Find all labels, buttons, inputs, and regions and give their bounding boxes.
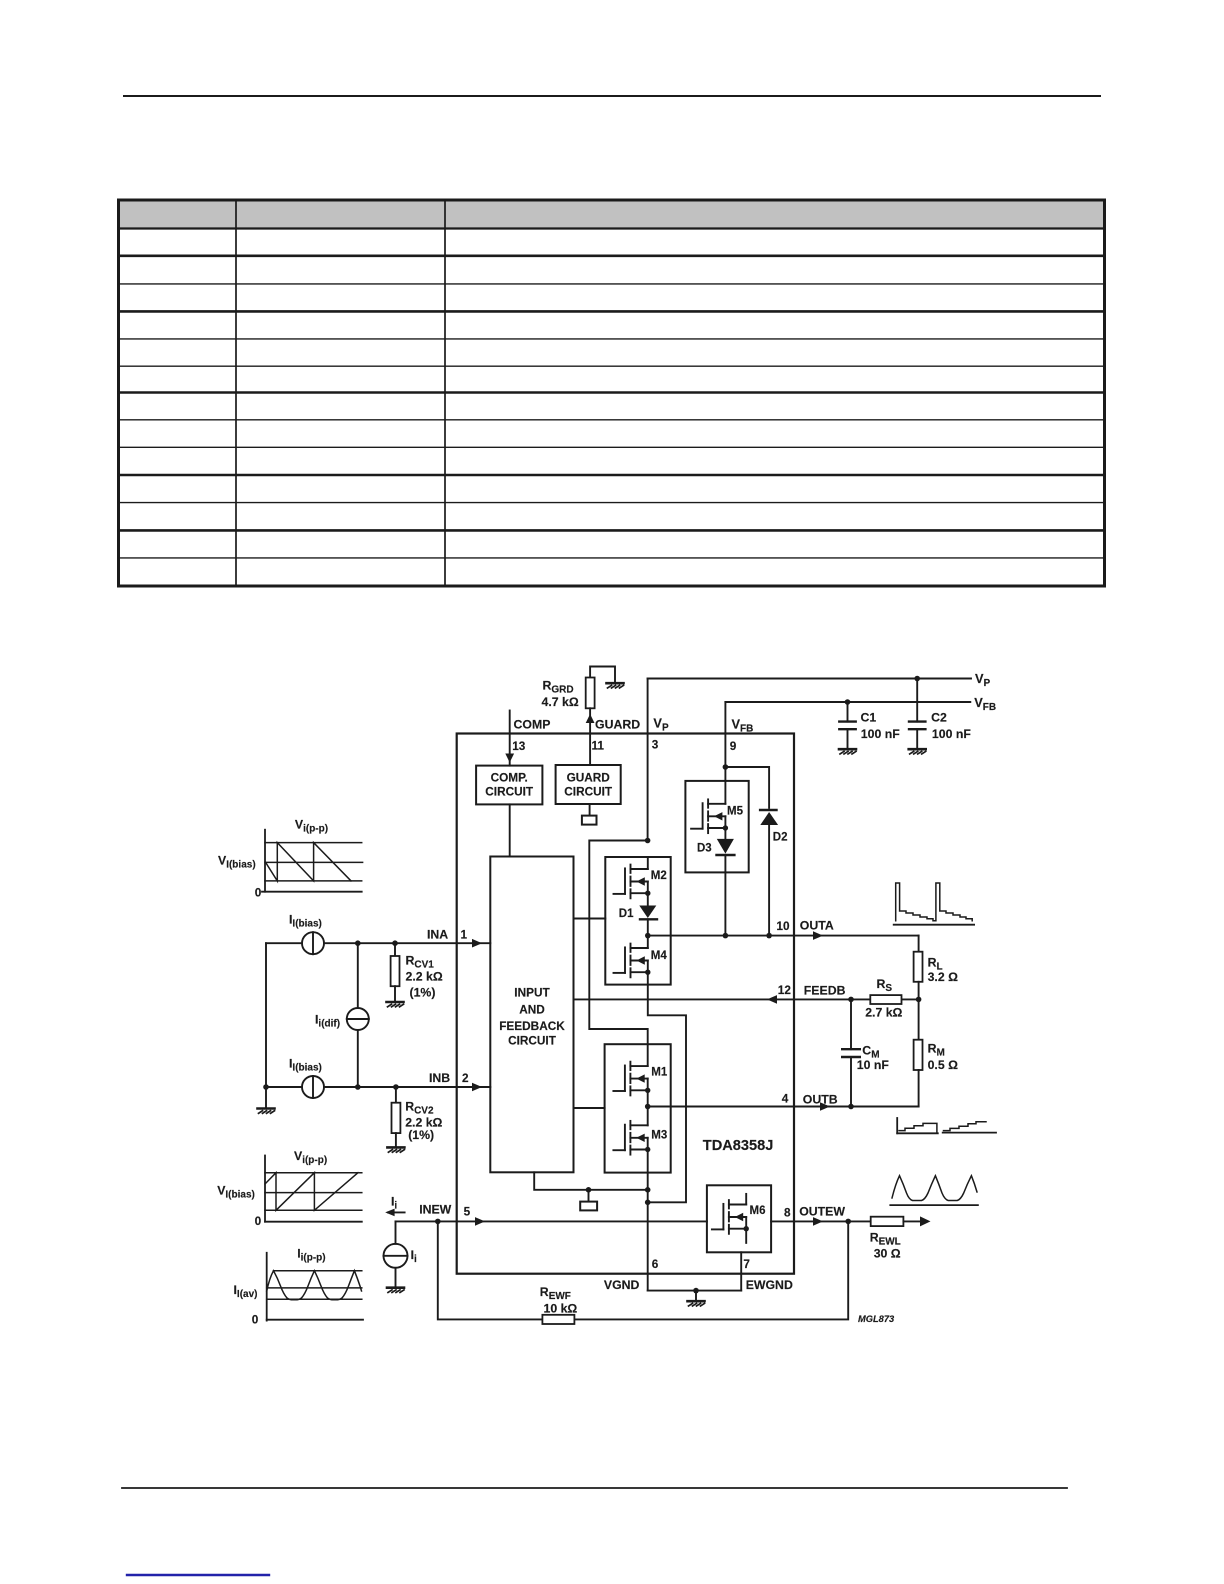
svg-text:VI(bias): VI(bias) bbox=[218, 854, 256, 871]
svg-text:M6: M6 bbox=[750, 1205, 766, 1217]
svg-text:AND: AND bbox=[519, 1003, 545, 1017]
rail M2 drain bbox=[647, 857, 649, 869]
rail M3 source to VGND bbox=[647, 1150, 649, 1291]
M5/D3 protection box bbox=[685, 781, 748, 873]
wire Vp node to M1 branch bbox=[589, 841, 647, 1067]
rail M2 source to D1 bbox=[647, 893, 649, 905]
svg-text:II(bias): II(bias) bbox=[289, 913, 322, 930]
current source Ii(dif) bbox=[357, 943, 359, 1008]
resistor REWF bbox=[542, 1315, 574, 1324]
svg-text:OUTEW: OUTEW bbox=[799, 1205, 845, 1219]
svg-text:0: 0 bbox=[252, 1313, 259, 1327]
wire INB bbox=[266, 1086, 302, 1088]
current source II(bias) top bbox=[302, 932, 324, 954]
svg-text:OUTA: OUTA bbox=[800, 919, 834, 933]
svg-text:M1: M1 bbox=[651, 1067, 668, 1079]
current source Ii bbox=[395, 1221, 397, 1243]
svg-text:2.7 kΩ: 2.7 kΩ bbox=[865, 1006, 902, 1020]
svg-text:Ii(p-p): Ii(p-p) bbox=[297, 1247, 325, 1264]
svg-text:2: 2 bbox=[462, 1071, 469, 1085]
capacitor CM bbox=[850, 999, 852, 1049]
svg-text:COMP.: COMP. bbox=[491, 771, 528, 785]
M6 source down bbox=[745, 1229, 747, 1243]
node OUTB on rail bbox=[645, 1104, 651, 1110]
wire FEEDB bbox=[574, 998, 919, 1000]
rail M1 source to OUTB bbox=[647, 1090, 649, 1106]
svg-text:100 nF: 100 nF bbox=[932, 727, 971, 741]
svg-text:10: 10 bbox=[776, 919, 790, 933]
svg-text:30 Ω: 30 Ω bbox=[874, 1247, 901, 1261]
resistor RCV1 bbox=[394, 943, 396, 956]
wire REWF feedback loop bbox=[438, 1221, 543, 1319]
svg-text:FEEDBACK: FEEDBACK bbox=[499, 1019, 565, 1033]
arrow up into RGRD bbox=[586, 714, 595, 723]
svg-text:(1%): (1%) bbox=[408, 1128, 434, 1142]
svg-text:C1: C1 bbox=[861, 711, 877, 725]
table header row (grey) bbox=[119, 200, 1105, 229]
arrow INA into IC bbox=[472, 939, 482, 948]
svg-text:REWL: REWL bbox=[870, 1231, 901, 1248]
svg-text:10 kΩ: 10 kΩ bbox=[544, 1302, 578, 1316]
wire M5 drain from VFB node bbox=[724, 767, 726, 804]
svg-text:INEW: INEW bbox=[419, 1203, 451, 1217]
table row lines bbox=[119, 255, 1105, 258]
transistor M2 bbox=[614, 865, 651, 899]
guard circuit box bbox=[556, 765, 621, 804]
svg-text:(1%): (1%) bbox=[410, 986, 436, 1000]
resistor RCV2 bbox=[395, 1087, 397, 1103]
svg-text:FEEDB: FEEDB bbox=[804, 984, 846, 998]
svg-text:CIRCUIT: CIRCUIT bbox=[485, 785, 534, 799]
svg-text:D3: D3 bbox=[697, 843, 712, 855]
svg-text:VFB: VFB bbox=[974, 695, 996, 713]
svg-text:OUTB: OUTB bbox=[803, 1093, 838, 1107]
svg-text:7: 7 bbox=[743, 1257, 750, 1271]
svg-text:Vi(p-p): Vi(p-p) bbox=[295, 818, 328, 835]
waveform graph INA bbox=[264, 830, 266, 892]
wire comp circuit to input block bbox=[509, 804, 511, 856]
svg-text:RM: RM bbox=[928, 1042, 945, 1059]
arrow down into comp circuit bbox=[505, 754, 514, 763]
arrow INEW into IC bbox=[475, 1217, 485, 1226]
svg-text:100 nF: 100 nF bbox=[861, 727, 900, 741]
node VFB junction bbox=[723, 764, 729, 770]
svg-text:RS: RS bbox=[877, 977, 893, 994]
svg-text:MGL873: MGL873 bbox=[858, 1314, 895, 1324]
svg-text:9: 9 bbox=[730, 739, 737, 753]
svg-text:RGRD: RGRD bbox=[543, 679, 574, 696]
bottom rule bbox=[122, 1487, 1067, 1489]
left vertical bias return wire bbox=[265, 943, 267, 1106]
table column separators bbox=[235, 200, 237, 586]
IC box TDA8358J bbox=[457, 734, 794, 1274]
svg-text:GUARD: GUARD bbox=[595, 718, 640, 732]
node INB/RCV2 bbox=[393, 1084, 399, 1090]
wire OUTB bbox=[648, 1106, 919, 1108]
transistor M4 bbox=[614, 944, 651, 978]
svg-text:VP: VP bbox=[653, 716, 669, 734]
svg-text:II(av): II(av) bbox=[234, 1283, 258, 1300]
table outer border bbox=[119, 200, 1105, 586]
svg-text:2.2 kΩ: 2.2 kΩ bbox=[406, 970, 443, 984]
svg-text:13: 13 bbox=[512, 739, 526, 753]
diode D1 bbox=[639, 906, 656, 919]
wire COMP pin 13 bbox=[509, 711, 511, 766]
svg-text:TDA8358J: TDA8358J bbox=[703, 1138, 774, 1154]
node OUTA on rail bbox=[645, 933, 651, 939]
svg-text:4.7 kΩ: 4.7 kΩ bbox=[542, 695, 579, 709]
Vp supply rail bbox=[648, 678, 971, 680]
wire Vp pin 3 bbox=[647, 679, 649, 841]
wire EWGND pin 7 bbox=[740, 1252, 742, 1290]
waveform graph INEW bbox=[266, 1253, 268, 1321]
waveform OUTEW cusps bbox=[890, 1204, 978, 1206]
wire VFB pin 9 bbox=[724, 702, 726, 767]
wire M4 source to VGND jog bbox=[648, 972, 686, 1202]
wire VFB node to D2 bbox=[725, 767, 769, 808]
ground at RGRD bbox=[607, 683, 624, 688]
Ii annotation arrow bbox=[388, 1211, 405, 1213]
wire D3 to OUTA bbox=[724, 855, 726, 936]
wire GUARD pin 11 bbox=[589, 708, 591, 765]
rail M5 source to D3 bbox=[724, 828, 726, 839]
waveform graph INB bbox=[264, 1156, 266, 1222]
svg-text:4: 4 bbox=[782, 1092, 789, 1106]
input and feedback circuit box bbox=[490, 857, 573, 1173]
svg-text:REWF: REWF bbox=[540, 1285, 571, 1302]
wire gate feed M2/M4 bbox=[574, 918, 606, 920]
svg-text:Ii: Ii bbox=[411, 1248, 417, 1265]
svg-text:M5: M5 bbox=[727, 806, 744, 818]
transistor M3 bbox=[613, 1121, 650, 1155]
svg-text:VP: VP bbox=[975, 671, 991, 689]
footer link underline bbox=[127, 1574, 269, 1576]
diode D2 bbox=[760, 809, 776, 811]
node INA/RCV1 bbox=[392, 940, 398, 946]
svg-text:Ii(dif): Ii(dif) bbox=[315, 1013, 340, 1030]
svg-text:INPUT: INPUT bbox=[514, 986, 550, 1000]
svg-text:D1: D1 bbox=[619, 908, 634, 920]
arrow INB into IC bbox=[472, 1083, 482, 1092]
svg-text:11: 11 bbox=[592, 739, 605, 753]
svg-text:5: 5 bbox=[464, 1205, 471, 1219]
resistor RM bbox=[918, 999, 920, 1039]
wire OUTA bbox=[648, 935, 919, 937]
svg-text:8: 8 bbox=[784, 1206, 791, 1220]
svg-text:EWGND: EWGND bbox=[746, 1278, 793, 1292]
table header bottom line bbox=[119, 227, 1105, 229]
svg-text:CIRCUIT: CIRCUIT bbox=[564, 785, 613, 799]
current source II(bias) bottom bbox=[302, 1076, 324, 1098]
svg-text:M3: M3 bbox=[651, 1130, 667, 1142]
wire gate feed M1/M3 bbox=[574, 1107, 605, 1109]
svg-text:0: 0 bbox=[255, 886, 262, 900]
svg-text:12: 12 bbox=[778, 983, 792, 997]
svg-text:II(bias): II(bias) bbox=[289, 1057, 322, 1074]
comp circuit box bbox=[476, 766, 542, 805]
resistor RGRD bbox=[590, 667, 615, 682]
svg-text:1: 1 bbox=[461, 928, 468, 942]
M2/M4 halfbridge box bbox=[605, 857, 670, 985]
svg-text:C2: C2 bbox=[931, 711, 947, 725]
svg-text:D2: D2 bbox=[773, 832, 788, 844]
svg-text:RCV1: RCV1 bbox=[406, 954, 435, 971]
svg-text:M2: M2 bbox=[651, 870, 667, 882]
capacitor C2 bbox=[914, 676, 920, 682]
svg-text:RCV2: RCV2 bbox=[405, 1100, 434, 1117]
svg-text:0.5 Ω: 0.5 Ω bbox=[928, 1058, 959, 1072]
wire INA bbox=[266, 942, 302, 944]
top rule bbox=[124, 95, 1100, 97]
svg-text:3.2 Ω: 3.2 Ω bbox=[928, 970, 959, 984]
resistor REWL bbox=[871, 1217, 904, 1226]
transistor M5 bbox=[691, 799, 728, 833]
pad below guard circuit bbox=[582, 816, 597, 825]
svg-text:3: 3 bbox=[652, 738, 659, 752]
waveform OUTB staircase bbox=[896, 1118, 898, 1133]
svg-text:M4: M4 bbox=[651, 950, 668, 962]
svg-text:COMP: COMP bbox=[514, 718, 551, 732]
transistor M6 bbox=[712, 1200, 749, 1234]
wire guard circuit pad bbox=[589, 804, 591, 816]
svg-text:INA: INA bbox=[427, 928, 448, 942]
diode D3 bbox=[717, 839, 734, 854]
svg-text:GUARD: GUARD bbox=[567, 771, 611, 785]
svg-text:VI(bias): VI(bias) bbox=[217, 1184, 255, 1201]
M1/M3 halfbridge box bbox=[605, 1044, 671, 1172]
svg-text:VGND: VGND bbox=[604, 1278, 640, 1292]
svg-text:Vi(p-p): Vi(p-p) bbox=[294, 1149, 327, 1166]
node INB/Idif bbox=[355, 1084, 361, 1090]
wire OUTEW bbox=[771, 1220, 871, 1222]
node INA/Idif bbox=[355, 940, 361, 946]
resistor RS bbox=[870, 995, 901, 1004]
svg-text:0: 0 bbox=[255, 1214, 262, 1228]
waveform OUTA pulses bbox=[894, 924, 974, 926]
capacitor C1 bbox=[845, 699, 851, 705]
svg-text:10 nF: 10 nF bbox=[857, 1058, 890, 1072]
M6 drain stub up bbox=[745, 1194, 747, 1205]
svg-text:6: 6 bbox=[652, 1257, 659, 1271]
svg-text:INB: INB bbox=[429, 1071, 450, 1085]
node INEW junction bbox=[435, 1219, 441, 1225]
resistor RL bbox=[918, 936, 920, 952]
svg-text:Ii: Ii bbox=[391, 1195, 397, 1212]
VFB rail bbox=[725, 701, 970, 703]
wire INEW bbox=[396, 1220, 438, 1222]
svg-text:CIRCUIT: CIRCUIT bbox=[508, 1034, 557, 1048]
transistor M1 bbox=[613, 1062, 650, 1096]
M6 EW output box bbox=[707, 1185, 771, 1252]
wire input block bottom to rail bbox=[534, 1172, 648, 1190]
wire VGND-EWGND bbox=[648, 1290, 742, 1292]
node Vp/M2 drain junction bbox=[645, 838, 651, 844]
pad below input block bbox=[588, 1190, 590, 1202]
svg-text:VFB: VFB bbox=[732, 717, 754, 735]
